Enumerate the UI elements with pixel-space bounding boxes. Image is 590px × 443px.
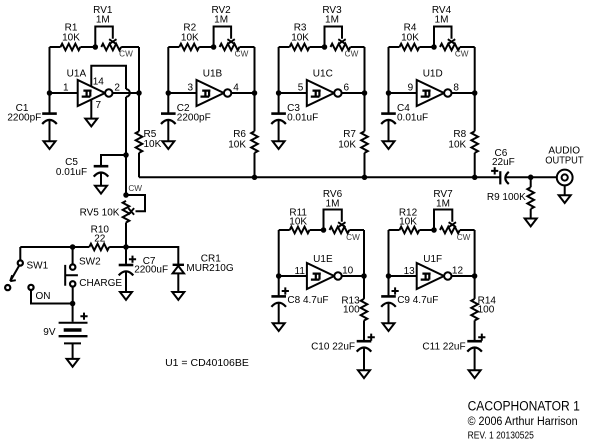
label R14 100 [478,296,497,316]
capacitor C9 [381,276,396,323]
svg-text:10K: 10K [228,139,246,150]
node RV2 top junction [211,44,217,50]
label C8 + [282,287,289,294]
switch SW1 [5,247,23,290]
svg-text:14: 14 [93,77,105,88]
node R9 junction [528,175,534,181]
label R11 10K [289,207,307,227]
resistor R5 [136,93,143,177]
label title CACOPHONATOR 1 [468,399,580,414]
svg-text:0.01uF: 0.01uF [287,113,318,124]
ground below C9 [383,323,395,331]
svg-text:U1E: U1E [313,254,333,265]
label CW of RV6 [346,233,360,242]
svg-text:10K: 10K [144,139,162,150]
op-amp inverter U1D [389,80,475,106]
svg-text:SW2: SW2 [79,256,101,267]
node U1C output junction [362,90,368,96]
svg-text:C10 22uF: C10 22uF [311,342,355,353]
label C11 22uF [422,342,465,353]
pin 2 label [114,83,120,94]
label R13 100 [341,296,360,316]
node R7 bus junction [362,175,368,181]
label CW of RV7 [457,233,471,242]
resistor R8 [471,93,478,177]
node RV7 top junction [431,227,437,233]
label SW1 [27,260,49,271]
wire stage U1D output right rail [474,47,476,93]
potentiometer RV7 [434,210,475,234]
label U1A [67,68,87,79]
wire stage U1E output right rail [363,230,365,276]
label RV1 1M [93,5,113,26]
label AUDIO OUTPUT [545,146,583,167]
svg-text:SW1: SW1 [27,260,49,271]
ground below CR1 [172,292,184,300]
label R7 10K [338,129,356,150]
capacitor C4 [381,93,396,141]
resistor R1 [50,44,96,51]
label R9 100K [487,192,526,203]
svg-text:OUTPUT: OUTPUT [545,156,583,167]
node RV1 top junction [93,44,99,50]
label C10 22uF [311,342,355,353]
svg-text:10K: 10K [399,217,417,228]
svg-text:U1A: U1A [67,68,87,79]
label RV7 1M [433,189,453,210]
svg-text:10K: 10K [338,139,356,150]
svg-text:0.01uF: 0.01uF [397,113,428,124]
ground below battery [67,359,79,367]
ground below C3 [273,141,285,149]
wire stage U1E input left rail [278,230,280,276]
svg-text:U1B: U1B [203,68,223,79]
label CW of RV2 [235,49,249,58]
label RV5 10K [80,208,120,219]
node U1E input junction [276,273,282,279]
label R10 22 [91,225,110,245]
svg-text:10K: 10K [291,32,309,43]
pin 12 label [452,265,464,276]
label C1 2200pF [7,103,41,124]
resistor R10 [20,244,126,251]
ground below C11 [469,370,481,378]
pin 8 label [453,83,459,94]
label RV2 1M [211,5,231,26]
label U1D [423,68,443,79]
label U1C [313,68,333,79]
node R8 bus junction [472,175,478,181]
capacitor C6 [500,171,530,184]
pin 3 label [187,83,193,94]
pin 14 label [93,77,105,88]
label RV6 1M [323,189,343,210]
op-amp inverter U1A [50,80,140,106]
svg-text:CACOPHONATOR 1: CACOPHONATOR 1 [468,399,580,414]
wire stage U1F output right rail [474,230,476,276]
label CW of RV1 [119,49,133,58]
svg-text:MUR210G: MUR210G [186,263,233,274]
potentiometer RV2 [214,27,255,51]
node RV4 top junction [431,44,437,50]
wire pin 14 VDD connection with crossover hop [91,66,130,195]
label C11 + [478,334,485,341]
svg-text:7: 7 [96,100,102,111]
wire stage U1B input left rail [167,47,169,93]
resistor R2 [168,44,213,51]
node U1B output junction [252,90,258,96]
label U1 = CD40106BE [165,357,249,369]
label C9 + [392,287,399,294]
label U1E [313,254,333,265]
svg-text:REV. 1 20130525: REV. 1 20130525 [468,431,535,442]
node ON contact [28,285,72,304]
wire stage U1A output right rail [138,47,140,93]
svg-text:C9 4.7uF: C9 4.7uF [397,295,438,306]
ground below C2 [162,141,174,149]
wire stage U1F input left rail [388,230,390,276]
label battery + [80,313,87,320]
svg-text:1M: 1M [436,198,450,209]
connector J1 audio output jack [557,170,573,196]
pin 1 label [63,83,69,94]
svg-text:1M: 1M [96,15,110,26]
label CR1 MUR210G [186,254,233,275]
wire bus to CR1 [126,247,178,264]
ground below C10 [358,370,370,378]
label U1B [203,68,223,79]
resistor R7 [361,93,368,177]
label R12 10K [399,207,418,227]
label C7 2200uF [134,256,168,275]
label SW2 [79,256,101,267]
battery 9V [59,304,88,359]
svg-text:CHARGE: CHARGE [79,278,122,289]
pin 9 label [408,83,414,94]
label C3 0.01uF [287,103,318,124]
svg-text:9V: 9V [43,327,56,338]
potentiometer RV5 [123,195,145,247]
label R8 10K [448,129,466,150]
svg-text:CW: CW [235,49,249,58]
label C6 + [491,167,498,174]
label C10 + [368,334,375,341]
svg-text:10K: 10K [62,32,80,43]
wire stage U1A input left rail [49,47,51,93]
pin 6 label [344,83,350,94]
svg-text:1M: 1M [325,15,339,26]
svg-text:U1D: U1D [423,68,443,79]
node RV3 top junction [322,44,328,50]
node RV6 top junction [321,227,327,233]
node SW2 top junction [70,244,76,250]
node U1D output junction [472,90,478,96]
node U1E output junction [361,273,367,279]
svg-text:U1 = CD40106BE: U1 = CD40106BE [165,357,249,369]
svg-text:ON: ON [36,291,51,302]
svg-text:10K: 10K [448,139,466,150]
potentiometer RV1 [95,27,139,51]
svg-text:10K: 10K [181,32,199,43]
capacitor C1 [42,93,57,141]
svg-text:13: 13 [404,266,416,277]
pin 4 label [233,83,239,94]
svg-text:6: 6 [344,83,350,94]
potentiometer RV6 [324,210,365,234]
node U1B input junction [166,90,172,96]
switch SW2 pushbutton [65,247,78,304]
potentiometer RV4 [434,27,475,51]
node U1C input junction [276,90,282,96]
svg-text:© 2006 Arthur Harrison: © 2006 Arthur Harrison [468,416,578,428]
capacitor C8 [271,276,286,323]
svg-text:2200pF: 2200pF [177,113,211,124]
ground below C8 [273,323,285,331]
svg-text:RV5 10K: RV5 10K [80,208,120,219]
label CW of RV3 [345,49,359,58]
resistor R3 [279,44,325,51]
potentiometer RV3 [325,27,365,51]
svg-text:22: 22 [94,233,106,244]
label C8 4.7uF [287,295,328,306]
node RV5 top junction [123,192,129,198]
svg-text:CW: CW [346,233,360,242]
svg-text:1: 1 [63,83,69,94]
ground below C7 [120,292,132,300]
wire stage U1C input left rail [278,47,280,93]
ground below C5 [95,186,107,194]
wire stage U1C output right rail [364,47,366,93]
label C6 22uF [492,148,515,168]
label C5 0.01uF [56,157,87,178]
ground below C1 [44,141,56,149]
label ON [36,291,51,302]
label C9 4.7uF [397,295,438,306]
svg-text:CW: CW [455,49,469,58]
ground below pin 7 [85,119,97,127]
svg-text:10K: 10K [289,217,307,228]
ground below R9 [525,219,537,227]
resistor R11 [279,227,324,234]
svg-text:10K: 10K [401,32,419,43]
resistor R6 [251,93,258,177]
label R4 10K [401,23,419,44]
ground below C4 [383,141,395,149]
svg-text:22uF: 22uF [492,157,515,168]
diode CR1 [173,265,184,292]
label C4 0.01uF [397,103,428,124]
svg-text:3: 3 [187,83,193,94]
node C5 junction on VDD line [123,152,129,158]
svg-text:2200pF: 2200pF [7,113,41,124]
label C2 2200pF [177,103,211,124]
capacitor C5 [94,155,126,186]
op-amp inverter U1F [389,263,475,289]
node U1D input junction [386,90,392,96]
label R6 10K [228,129,246,150]
svg-text:CW: CW [128,184,142,193]
node R6 bus junction [252,175,258,181]
capacitor C11 [467,341,482,370]
label 9V [43,327,56,338]
svg-text:0.01uF: 0.01uF [56,167,87,178]
node U1A output junction [136,90,142,96]
svg-text:2: 2 [114,83,120,94]
svg-text:100: 100 [343,305,360,316]
svg-text:1M: 1M [435,15,449,26]
label R3 10K [291,23,309,44]
resistor R13 [361,276,368,340]
svg-text:R9 100K: R9 100K [487,192,526,203]
svg-text:4: 4 [233,83,239,94]
resistor R4 [389,44,435,51]
node U1F output junction [472,273,478,279]
capacitor C2 [161,93,176,141]
node U1F input junction [386,273,392,279]
label CHARGE [79,278,122,289]
wire pin 7 ground stub [90,100,92,119]
label RV4 1M [432,5,452,26]
pin 7 label [96,100,102,111]
pin 11 label [295,266,306,277]
label copyright 2006 Arthur Harrison [468,416,578,428]
svg-text:U1F: U1F [423,254,442,265]
capacitor C10 [357,341,372,370]
pin 5 label [298,83,304,94]
label R1 10K [62,23,80,44]
svg-text:1M: 1M [326,198,340,209]
svg-text:C8 4.7uF: C8 4.7uF [287,295,328,306]
label CW of RV4 [455,49,469,58]
svg-text:11: 11 [295,266,306,277]
svg-text:CW: CW [457,233,471,242]
resistor R14 [471,276,478,340]
svg-text:8: 8 [453,83,459,94]
svg-text:C11 22uF: C11 22uF [422,342,465,353]
svg-text:12: 12 [452,265,464,276]
wire to output jack [531,176,557,178]
node U1A input junction [47,90,53,96]
op-amp inverter U1C [279,80,365,106]
svg-text:CW: CW [119,49,133,58]
label REV. 1 20130525 [468,431,535,442]
capacitor C3 [271,93,286,141]
node battery top junction [70,301,76,307]
wire stage U1D input left rail [388,47,390,93]
label RV3 1M [322,5,342,26]
svg-text:U1C: U1C [313,68,333,79]
capacitor C7 [119,247,134,292]
label R5 10K [144,129,162,150]
label R2 10K [181,23,199,44]
wire audio summing bus [139,176,500,178]
svg-text:1M: 1M [214,15,228,26]
label CW of RV5 [128,184,142,193]
svg-text:2200uF: 2200uF [134,264,168,275]
pin 10 label [342,265,354,276]
resistor R12 [389,227,435,234]
ground below output jack [559,195,571,203]
op-amp inverter U1B [168,80,254,106]
label U1F [423,254,442,265]
wire stage U1B output right rail [254,47,256,93]
svg-text:5: 5 [298,83,304,94]
op-amp inverter U1E [279,263,364,289]
label C7 + [129,256,136,263]
svg-text:10: 10 [342,265,354,276]
svg-text:9: 9 [408,83,414,94]
svg-text:100: 100 [478,305,495,316]
resistor R9 [527,177,534,218]
pin 13 label [404,266,416,277]
svg-text:CW: CW [345,49,359,58]
node R10 right junction [123,244,129,250]
